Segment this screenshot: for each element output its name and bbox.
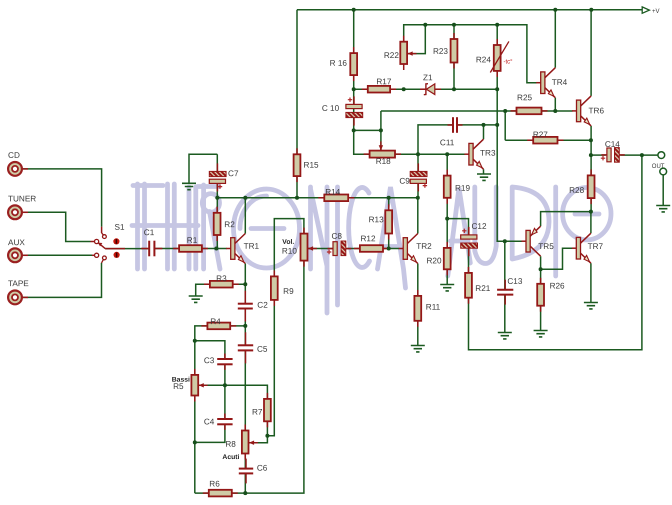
resistor R12 [354, 245, 389, 252]
resistor R24 (thermistor) [494, 39, 501, 77]
resistor R20 [444, 242, 451, 275]
svg-text:CD: CD [8, 151, 20, 160]
junction [193, 339, 197, 343]
svg-text:R24: R24 [476, 55, 491, 64]
svg-text:C7: C7 [228, 169, 239, 178]
OUT terminal (signal) [652, 152, 665, 170]
junction [295, 196, 299, 200]
wire R22 wiper [407, 25, 425, 54]
resistor R13 [385, 204, 392, 239]
wire C10 column [354, 89, 381, 154]
ground (R11) [411, 346, 425, 352]
ground (R20) [440, 285, 454, 291]
wire C14 right to OUT [620, 154, 658, 156]
svg-text:R10: R10 [282, 247, 297, 256]
capacitor C13 [497, 280, 513, 305]
wire TR7 collector [590, 212, 592, 234]
wire C11 left [418, 125, 453, 154]
svg-text:R6: R6 [209, 480, 220, 489]
wire R26 column [540, 269, 542, 330]
svg-text:R25: R25 [517, 93, 532, 102]
+V supply arrow [642, 7, 659, 15]
connector TAPE jack [8, 291, 28, 305]
svg-text:C14: C14 [605, 140, 620, 149]
svg-text:+V: +V [652, 9, 660, 15]
junction [452, 23, 456, 27]
wire TR2 collector [417, 198, 419, 234]
switch S1 position dot 1 [113, 238, 119, 244]
wire R4 row / left column [195, 326, 246, 493]
svg-text:R22: R22 [384, 51, 399, 60]
svg-text:R12: R12 [361, 234, 376, 243]
resistor R28 [588, 169, 595, 204]
wire R2 column [216, 198, 218, 249]
wire TAPE input [22, 263, 101, 298]
connector TUNER jack [8, 205, 28, 219]
resistor R21 [465, 267, 472, 304]
wire C7 bottom [216, 182, 218, 198]
wire OUT ground [662, 175, 664, 206]
svg-text:R14: R14 [325, 188, 340, 197]
capacitor C7 (electrolytic) [209, 163, 226, 191]
resistor R16 [350, 47, 357, 81]
capacitor C14 (electrolytic) [601, 148, 625, 163]
wire R15 column [296, 10, 298, 198]
wire C4 branch [195, 385, 225, 442]
resistor R9 [271, 270, 278, 306]
wire R23 column [453, 25, 455, 89]
wire R5 wiper [199, 384, 225, 386]
connector CD jack [8, 162, 28, 176]
junction [243, 491, 247, 495]
ground (TR7 emitter) [584, 303, 598, 309]
capacitor C4 [217, 414, 232, 430]
junction [640, 153, 644, 157]
junction [503, 109, 507, 113]
resistor R18 (pot) [364, 151, 401, 158]
ground (R26) [534, 331, 548, 337]
wire C11 right [457, 124, 497, 126]
svg-text:C4: C4 [204, 417, 215, 426]
junction [539, 267, 543, 271]
junction [495, 87, 499, 91]
junction [553, 109, 557, 113]
wire R20 column [446, 219, 448, 285]
junction [589, 8, 593, 12]
svg-text:TR5: TR5 [538, 242, 554, 251]
svg-text:TR3: TR3 [480, 149, 496, 158]
svg-text:-tc°: -tc° [504, 60, 514, 66]
capacitor C5 [238, 332, 253, 363]
svg-text:R13: R13 [369, 215, 384, 224]
svg-text:TAPE: TAPE [8, 279, 29, 288]
resistor R17 [362, 86, 396, 93]
thermistor R24 diagonal [490, 41, 509, 72]
wire TR2 emitter / R11 [417, 264, 419, 346]
junction [482, 123, 486, 127]
junction [402, 87, 406, 91]
switch S1 position dot 2 [114, 252, 120, 258]
svg-text:C2: C2 [257, 301, 268, 310]
junction [495, 23, 499, 27]
svg-text:R8: R8 [225, 440, 236, 449]
svg-text:C11: C11 [440, 138, 455, 147]
wire TR3 collector [483, 125, 485, 139]
resistor R14 [318, 195, 354, 202]
resistor R10 (pot Vol.) [301, 228, 308, 267]
svg-text:R4: R4 [210, 317, 221, 326]
pot R5 wiper arrow [199, 383, 208, 387]
resistor R22 (pot) [400, 36, 407, 70]
junction [193, 440, 197, 444]
svg-text:C5: C5 [257, 345, 268, 354]
wire C3 branch [195, 341, 225, 386]
transistor TR4 (NPN) [536, 68, 555, 98]
ground (OUT return) [656, 206, 670, 212]
svg-text:Vol.: Vol. [282, 239, 294, 246]
wire second rail to TR4 base [404, 25, 537, 83]
junction [445, 217, 449, 221]
wire C12 branch [447, 219, 468, 273]
svg-text:R9: R9 [283, 287, 294, 296]
transistor TR3 (NPN) [464, 139, 483, 169]
resistor R27 [527, 137, 563, 144]
resistor R1 [173, 245, 208, 252]
watermark ELETRONICA AUDIO [132, 184, 611, 313]
OUT terminal (return) [660, 168, 667, 175]
capacitor C12 (electrolytic) [461, 227, 478, 256]
wire C14 left [591, 154, 606, 156]
wire +V rail [297, 9, 648, 11]
junction [243, 282, 247, 286]
svg-text:R28: R28 [569, 186, 584, 195]
junction [352, 8, 356, 12]
connector AUX jack [8, 248, 28, 262]
wire CD input [22, 169, 101, 227]
svg-text:TR2: TR2 [416, 242, 432, 251]
wire AUX input [22, 254, 92, 256]
switch S1 [91, 227, 126, 263]
wire TR5 emitter [541, 212, 591, 227]
wire R7 branch [225, 385, 268, 435]
wire R19 column [446, 154, 448, 218]
svg-text:TR6: TR6 [589, 106, 605, 115]
svg-text:R11: R11 [426, 303, 441, 312]
svg-text:C8: C8 [332, 232, 343, 241]
capacitor C8 (electrolytic) [327, 241, 351, 256]
transistor TR1 (NPN) [226, 234, 245, 264]
wire TR6 emitter / R28 column [590, 126, 592, 212]
svg-text:TR4: TR4 [552, 78, 568, 87]
svg-text:R7: R7 [252, 408, 263, 417]
junction [387, 196, 391, 200]
wire R24 column / TR5 base [497, 25, 522, 241]
junction [243, 324, 247, 328]
svg-text:AUX: AUX [8, 238, 25, 247]
wire R18 to TR3 base [395, 153, 465, 155]
pot R22 wiper arrow [408, 51, 417, 55]
wire TR7 emitter [590, 263, 592, 302]
junction [589, 210, 593, 214]
junction [223, 383, 227, 387]
wire R3 row [196, 284, 246, 296]
capacitor C1 [141, 241, 162, 257]
svg-text:R17: R17 [376, 77, 391, 86]
svg-text:R27: R27 [533, 130, 548, 139]
pot R8 wiper arrow [249, 441, 258, 445]
svg-text:C12: C12 [472, 222, 487, 231]
junction [387, 247, 391, 251]
svg-text:Bassi: Bassi [172, 377, 190, 384]
wire TUNER input [22, 212, 90, 241]
wire R10 wiper [308, 248, 333, 250]
svg-text:C13: C13 [507, 277, 522, 286]
wire TR1 emitter / center column [244, 264, 246, 494]
wire R17 Z1 row [354, 88, 498, 90]
wire TR6 collector [590, 10, 592, 96]
svg-text:C9: C9 [399, 177, 410, 186]
svg-text:S1: S1 [115, 223, 125, 232]
transistor TR5 (PNP) [522, 226, 541, 256]
junction [352, 87, 356, 91]
capacitor C9 (electrolytic) [410, 163, 427, 191]
capacitor C11 [448, 117, 463, 133]
svg-text:R1: R1 [187, 236, 198, 245]
transistor TR6 (NPN) [572, 96, 591, 126]
svg-text:Z1: Z1 [423, 73, 433, 82]
wire main bus [217, 197, 417, 199]
transistor TR2 (NPN) [399, 234, 418, 264]
wire C8 to TR2 base [346, 248, 399, 250]
svg-text:R18: R18 [376, 157, 391, 166]
wire TR4 emitter [554, 98, 556, 111]
resistor R11 [414, 290, 421, 327]
junction [553, 8, 557, 12]
wire C7 top to ground [189, 154, 217, 183]
resistor R25 [511, 108, 548, 115]
svg-text:R23: R23 [433, 47, 448, 56]
junction [265, 434, 269, 438]
svg-text:R2: R2 [224, 220, 235, 229]
capacitor C3 [217, 354, 232, 370]
junction [379, 128, 383, 132]
wire TR5 collector to TR7 base [541, 248, 573, 269]
wire R13 column [388, 198, 390, 249]
junction [214, 247, 218, 251]
junction [589, 138, 593, 142]
svg-text:R26: R26 [550, 281, 565, 290]
wire TR1 collector [244, 198, 246, 234]
wire R27 link [505, 111, 591, 140]
wire input row [105, 248, 227, 250]
wire TR3 emitter [483, 169, 485, 174]
junction [445, 152, 449, 156]
wire R9 path [250, 219, 304, 443]
resistor R23 [451, 33, 458, 69]
ground (TR3 emitter) [477, 174, 491, 180]
resistor R15 [294, 148, 301, 182]
junction [243, 196, 247, 200]
svg-text:C6: C6 [257, 464, 268, 473]
junction [503, 239, 507, 243]
junction [423, 23, 427, 27]
capacitor C6 [239, 459, 253, 484]
svg-text:R20: R20 [426, 256, 441, 265]
ground (R3) [189, 296, 203, 302]
resistor R7 [264, 393, 271, 427]
resistor R6 [203, 490, 238, 497]
wire feedback loop [469, 155, 642, 350]
wire TR4 collector [554, 10, 556, 68]
ground (C7 input) [182, 183, 196, 189]
zener diode Z1 [420, 84, 441, 95]
svg-text:TR7: TR7 [588, 242, 604, 251]
junction [452, 87, 456, 91]
svg-text:TR1: TR1 [244, 242, 260, 251]
pot R18 wiper arrow [379, 141, 383, 150]
junction [416, 196, 420, 200]
resistor R8 (pot Acuti) [242, 425, 249, 460]
resistor R19 [444, 170, 451, 204]
junction [416, 152, 420, 156]
svg-text:C1: C1 [144, 228, 155, 237]
pot R10 wiper arrow [308, 246, 317, 250]
resistor R5 (pot Bassi) [191, 369, 198, 402]
transistor TR7 (NPN) [572, 233, 591, 263]
junction [589, 153, 593, 157]
junction [215, 196, 219, 200]
capacitor C10 (electrolytic) [346, 96, 363, 125]
wire C9 column [417, 154, 419, 198]
wire R16 column [353, 10, 355, 89]
resistor R2 [214, 207, 221, 241]
svg-text:C3: C3 [204, 356, 215, 365]
junction [495, 123, 499, 127]
svg-text:C 10: C 10 [322, 104, 340, 113]
ground (C13) [498, 333, 512, 339]
svg-text:Acuti: Acuti [222, 454, 239, 461]
svg-text:R 16: R 16 [330, 59, 348, 68]
wire C13 column [504, 241, 506, 332]
svg-text:R3: R3 [216, 274, 227, 283]
resistor R26 [537, 278, 544, 312]
capacitor C2 [238, 291, 253, 322]
svg-text:R19: R19 [455, 184, 470, 193]
junction [352, 128, 356, 132]
wire top bus to TR6 base [381, 110, 573, 112]
svg-text:TUNER: TUNER [8, 194, 36, 203]
wire bottom rail / R10 bottom [195, 261, 304, 494]
svg-text:R15: R15 [304, 161, 319, 170]
wire R18 wiper [380, 111, 382, 150]
resistor R3 [204, 281, 239, 288]
resistor R4 [201, 323, 236, 330]
svg-text:R21: R21 [475, 284, 490, 293]
